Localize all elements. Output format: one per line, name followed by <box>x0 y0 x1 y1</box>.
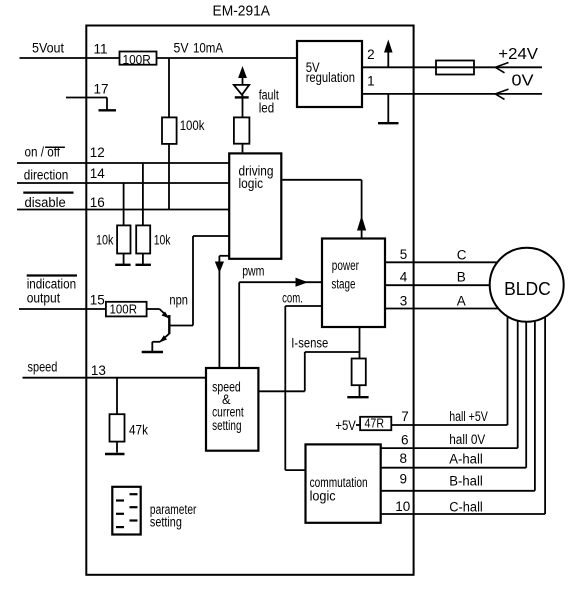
svg-text:regulation: regulation <box>306 70 355 85</box>
svg-text:12: 12 <box>90 145 105 160</box>
svg-text:16: 16 <box>90 195 105 210</box>
svg-text:+5V: +5V <box>335 418 355 433</box>
svg-text:8: 8 <box>400 451 408 466</box>
svg-text:BLDC: BLDC <box>504 278 551 299</box>
svg-text:npn: npn <box>169 293 188 308</box>
svg-text:5: 5 <box>400 247 408 262</box>
svg-text:7: 7 <box>401 409 409 424</box>
svg-text:47R: 47R <box>365 415 385 430</box>
svg-text:stage: stage <box>331 277 355 292</box>
svg-text:I-sense: I-sense <box>291 336 328 351</box>
svg-text:100R: 100R <box>123 52 151 67</box>
svg-text:10k: 10k <box>154 232 171 247</box>
svg-text:logic: logic <box>310 488 336 503</box>
svg-text:speed: speed <box>28 360 58 375</box>
svg-text:10k: 10k <box>96 232 114 247</box>
svg-text:14: 14 <box>90 166 106 181</box>
svg-text:logic: logic <box>239 176 264 191</box>
svg-text:1: 1 <box>367 73 375 88</box>
svg-text:on / off: on / off <box>25 144 61 159</box>
svg-text:setting: setting <box>150 515 182 530</box>
svg-text:10mA: 10mA <box>193 40 223 55</box>
svg-text:4: 4 <box>400 269 408 284</box>
svg-text:13: 13 <box>91 363 106 378</box>
svg-text:9: 9 <box>400 472 408 487</box>
svg-text:17: 17 <box>94 82 109 97</box>
svg-text:power: power <box>332 258 360 273</box>
svg-text:3: 3 <box>400 294 408 309</box>
svg-text:100R: 100R <box>110 301 138 316</box>
svg-text:direction: direction <box>24 167 69 182</box>
svg-text:100k: 100k <box>180 118 205 133</box>
svg-text:EM-291A: EM-291A <box>213 3 271 20</box>
svg-text:disable: disable <box>25 195 66 210</box>
svg-text:setting: setting <box>212 418 241 433</box>
svg-text:15: 15 <box>90 293 105 308</box>
svg-text:47k: 47k <box>129 423 148 438</box>
svg-text:B-hall: B-hall <box>449 473 483 488</box>
svg-text:0V: 0V <box>512 73 534 90</box>
svg-text:6: 6 <box>401 432 409 447</box>
svg-text:C: C <box>457 247 467 262</box>
svg-text:led: led <box>259 101 275 116</box>
svg-text:+24V: +24V <box>498 46 538 63</box>
svg-text:com.: com. <box>282 291 303 306</box>
svg-text:5V: 5V <box>174 40 189 55</box>
svg-text:B: B <box>457 269 466 284</box>
svg-text:output: output <box>27 290 61 305</box>
svg-text:2: 2 <box>367 47 375 62</box>
svg-text:A: A <box>457 294 466 309</box>
svg-text:5Vout: 5Vout <box>32 41 64 56</box>
svg-text:10: 10 <box>395 499 410 514</box>
svg-text:C-hall: C-hall <box>449 499 483 514</box>
svg-text:hall +5V: hall +5V <box>449 409 488 424</box>
svg-text:indication: indication <box>27 276 76 291</box>
svg-text:A-hall: A-hall <box>449 451 483 466</box>
svg-text:pwm: pwm <box>242 263 264 278</box>
svg-text:hall 0V: hall 0V <box>449 432 485 447</box>
svg-text:11: 11 <box>94 42 108 57</box>
